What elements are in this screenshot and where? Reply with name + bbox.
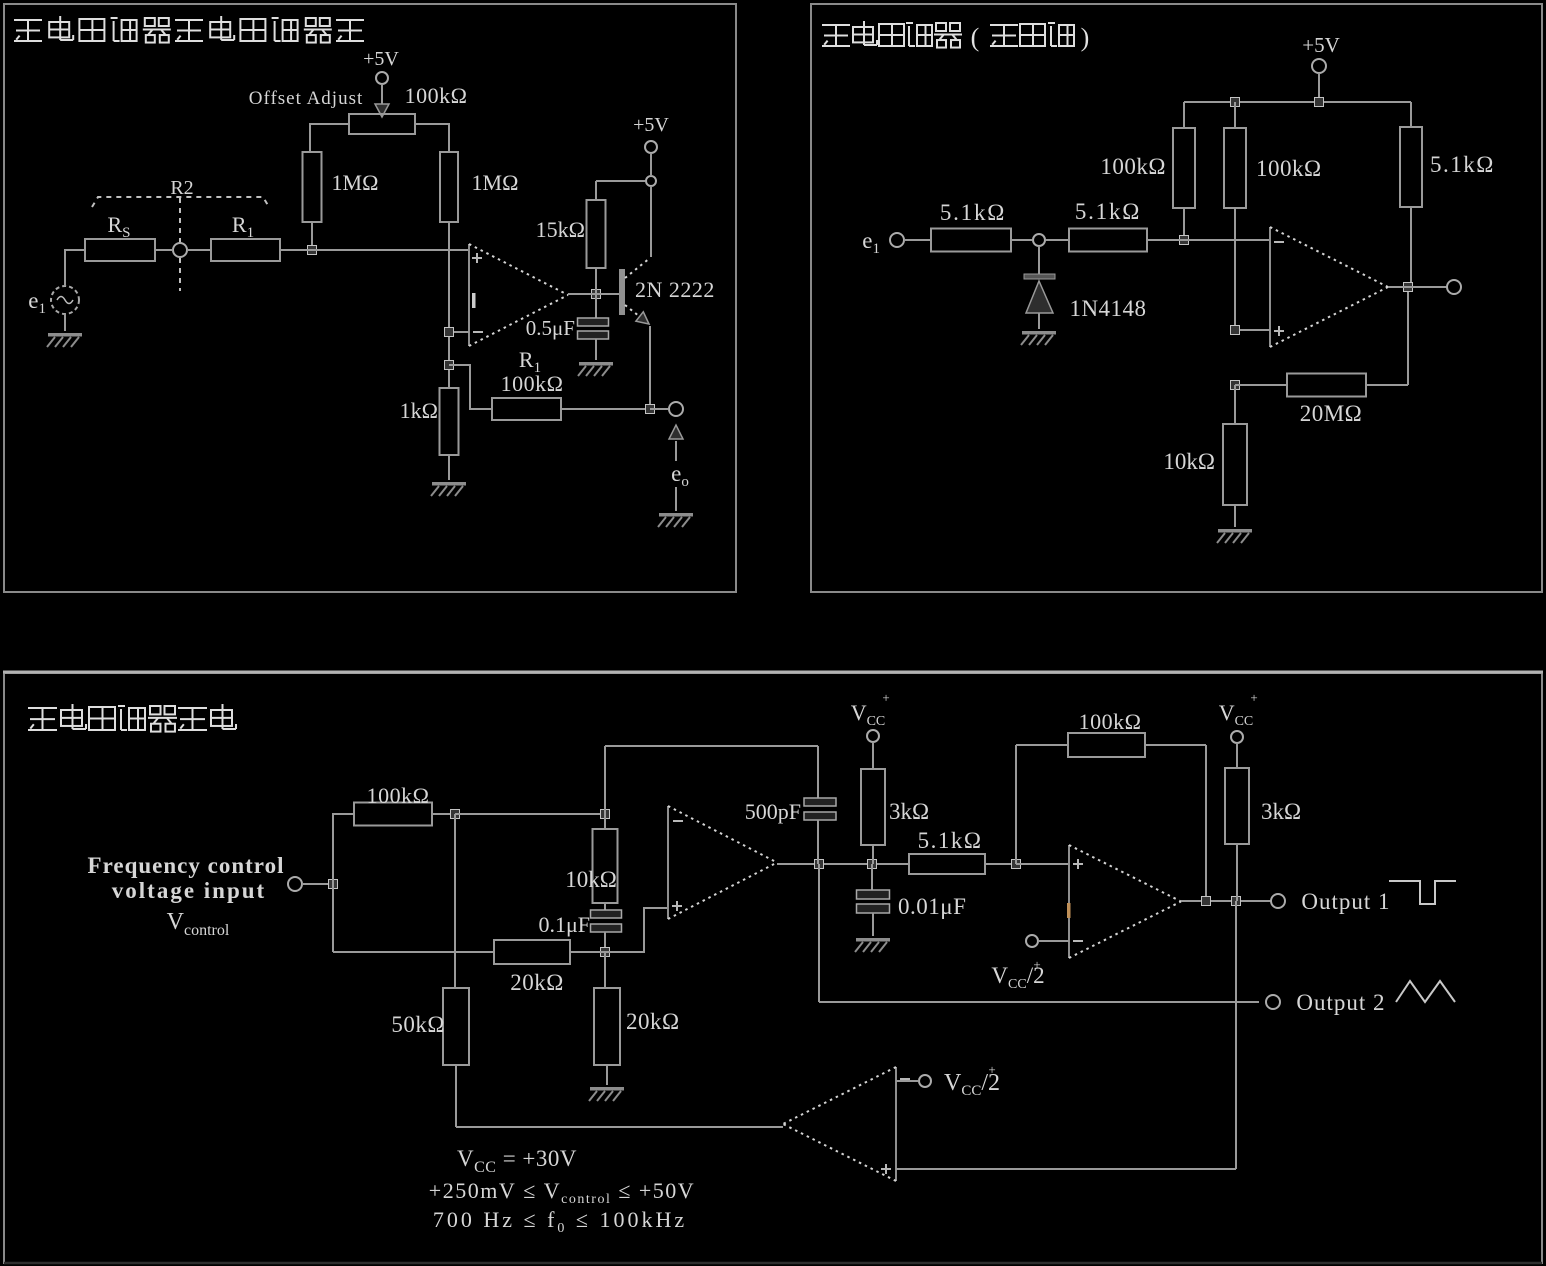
wire [1046, 239, 1069, 241]
resistor 1M&#937; (left) [303, 152, 322, 222]
resistor 10k&#937; [593, 829, 618, 903]
svg-text:100kΩ: 100kΩ [501, 371, 564, 396]
potentiometer 100k&#937; [349, 83, 467, 134]
wire [1011, 239, 1032, 241]
wire + input rail [896, 1168, 1236, 1170]
wire [650, 408, 668, 410]
wire [675, 487, 677, 511]
svg-text:Output 2: Output 2 [1296, 990, 1385, 1015]
op-amp U1 [469, 244, 568, 346]
junction [1232, 897, 1241, 906]
resistor R1 100k&#937; (feedback) [492, 398, 561, 420]
terminal output [1447, 280, 1461, 294]
junction (timing node) [601, 948, 610, 957]
svg-text:+: + [988, 1062, 995, 1077]
svg-text:3kΩ: 3kΩ [1261, 799, 1301, 824]
arrow to output [669, 425, 683, 439]
svg-text:5.1kΩ: 5.1kΩ [1430, 152, 1495, 177]
wire [904, 239, 931, 241]
source e1 [28, 286, 79, 317]
wire [1016, 744, 1068, 746]
wire [1235, 384, 1287, 386]
wire [604, 903, 606, 910]
node (collector supply) [646, 176, 656, 186]
junction (feedback node) [1231, 381, 1240, 390]
terminal e_o [669, 402, 683, 416]
resistor 10k&#937; [1223, 424, 1247, 505]
wire output 2 [819, 1001, 1259, 1003]
wire [1234, 505, 1236, 527]
wire input branch [332, 813, 334, 952]
junction (input) [329, 880, 338, 889]
ground (diode) [1021, 331, 1056, 345]
node between RS and R1 [173, 243, 187, 257]
ground (0.01uF) [855, 938, 890, 952]
wire to + input [605, 908, 668, 952]
junction (noninverting input node) [308, 246, 317, 255]
terminal Output 1 [1271, 894, 1285, 908]
junction (inverting node) [445, 328, 454, 337]
wire [1366, 384, 1408, 386]
svg-text:20kΩ: 20kΩ [626, 1009, 680, 1034]
svg-text:+: + [1033, 957, 1040, 972]
wire [570, 951, 605, 953]
svg-text:2N 2222: 2N 2222 [635, 277, 715, 302]
resistor 100k&#937; (mid) [1224, 128, 1246, 208]
title: (single supply) parens+chars [971, 23, 980, 52]
wire op-amp output to base [568, 293, 619, 295]
wire [302, 883, 333, 885]
wire output [777, 863, 909, 865]
wire [1235, 901, 1237, 1169]
wire [1183, 102, 1185, 128]
wire [1234, 208, 1236, 330]
node (diode tap) [1033, 234, 1045, 246]
resistor 50k&#937; [443, 988, 469, 1065]
resistor 5.1k&#937; (input 1) [931, 229, 1011, 252]
svg-text:+: + [882, 690, 889, 705]
svg-text:5.1kΩ: 5.1kΩ [940, 200, 1006, 225]
wire to + input [1235, 329, 1270, 331]
svg-text:100kΩ: 100kΩ [405, 83, 468, 108]
junction (integrator summing node) [601, 810, 610, 819]
wire [985, 863, 1016, 865]
resistor 3k&#937; (left) [861, 769, 885, 845]
wire [606, 1065, 608, 1085]
svg-text:3kΩ: 3kΩ [889, 799, 929, 824]
wire [1318, 73, 1320, 102]
wire [309, 123, 311, 152]
junction [1315, 98, 1324, 107]
wire [604, 746, 606, 814]
wire to + input [1016, 863, 1069, 865]
wire [311, 222, 313, 250]
wire [1236, 844, 1238, 901]
dashed bracket R2 [92, 177, 269, 291]
svg-text:Offset Adjust: Offset Adjust [249, 88, 364, 109]
wire [333, 813, 354, 815]
svg-text:+5V: +5V [363, 48, 399, 70]
ground (10k) [1217, 529, 1252, 543]
wire [604, 814, 606, 829]
svg-text:500pF: 500pF [745, 799, 801, 824]
power +5V terminal [1302, 33, 1340, 73]
svg-text:Frequency control: Frequency control [88, 853, 285, 878]
svg-text:1MΩ: 1MΩ [332, 170, 379, 195]
wire [872, 913, 874, 936]
svg-text:100kΩ: 100kΩ [367, 783, 430, 808]
wire feedback up [1407, 288, 1409, 385]
wire [1205, 745, 1207, 901]
wire [650, 153, 652, 176]
junction [1231, 98, 1240, 107]
ground (e1) [47, 333, 82, 347]
resistor 1M&#937; (right) [440, 152, 458, 222]
wire [1410, 207, 1412, 287]
wire comparator output rail [456, 1126, 783, 1128]
resistor 20M&#937; [1287, 374, 1366, 397]
wire pot right lead [415, 123, 449, 125]
wire [872, 845, 874, 864]
power VCC terminal (A2) [1219, 690, 1258, 743]
wire [448, 455, 450, 480]
svg-text:0.5μF: 0.5μF [526, 316, 575, 340]
wire output 1 [1181, 900, 1271, 902]
svg-text:100kΩ: 100kΩ [1256, 156, 1322, 181]
diode D1 1N4148 [1024, 246, 1055, 329]
svg-text:R2: R2 [170, 177, 193, 199]
resistor 100k&#937; (left) [1173, 128, 1195, 208]
svg-text:1N4148: 1N4148 [1069, 296, 1146, 321]
junction (comparator + node) [1012, 860, 1021, 869]
svg-text:): ) [1081, 23, 1090, 52]
svg-text:+5V: +5V [633, 114, 669, 136]
svg-text:5.1kΩ: 5.1kΩ [1075, 199, 1141, 224]
resistor 3k&#937; (right) [1225, 768, 1249, 844]
svg-text:15kΩ: 15kΩ [536, 217, 585, 242]
junction (integrator output) [815, 860, 824, 869]
wire [1183, 208, 1185, 239]
svg-text:20kΩ: 20kΩ [510, 970, 564, 995]
wire [64, 249, 85, 251]
ground (1k) [431, 482, 466, 496]
resistor 20k&#937; (lower) [594, 988, 620, 1065]
transistor Q1 2N2222 [619, 258, 715, 324]
op-amp U2 [1270, 227, 1388, 347]
wire [604, 952, 606, 988]
power +5V terminal (offset adjust) [363, 48, 399, 117]
resistor 100k&#937; (input) [354, 803, 432, 826]
wire [817, 746, 819, 798]
capacitor 500pF [804, 798, 836, 820]
wire [595, 181, 597, 200]
wire [871, 864, 873, 890]
wire [595, 268, 597, 294]
svg-text:10kΩ: 10kΩ [565, 867, 617, 892]
title: adjustable-offset low-frequency amplifier (Chinese) [14, 16, 364, 43]
power +5V terminal (collector) [633, 114, 669, 153]
wire to - input [1147, 239, 1270, 241]
svg-text:voltage input: voltage input [112, 878, 266, 903]
wire [872, 742, 874, 769]
svg-text:100kΩ: 100kΩ [1079, 709, 1142, 734]
svg-text:50kΩ: 50kΩ [391, 1012, 445, 1037]
op-amp A2 (comparator) [1067, 845, 1181, 958]
resistor RS [85, 239, 155, 261]
wire [604, 932, 606, 952]
wire [818, 864, 820, 1002]
wire [455, 1065, 457, 1127]
wire to - input [455, 813, 605, 815]
resistor 5.1k&#937; (input 2) [1069, 229, 1147, 252]
wire top feedback rail [605, 745, 818, 747]
wire [1236, 743, 1238, 768]
junction (inverting node) [1180, 236, 1189, 245]
wire to collector [650, 186, 652, 257]
wire [675, 441, 677, 461]
wire [64, 250, 66, 286]
svg-text:100kΩ: 100kΩ [1100, 154, 1166, 179]
resistor 5.1k&#937; [909, 854, 985, 874]
wire output [1388, 286, 1447, 288]
resistor 1k&#937; [440, 388, 459, 455]
ground (20k) [589, 1087, 624, 1101]
resistor 5.1k&#937; (pullup) [1400, 127, 1422, 207]
svg-text:10kΩ: 10kΩ [1163, 449, 1215, 474]
label Frequency control / voltage input / Vcontrol [88, 853, 285, 939]
wire [155, 249, 173, 251]
wire feedback left [449, 365, 492, 409]
terminal Output 2 [1266, 995, 1280, 1009]
terminal VCC/2 (A2) [991, 935, 1044, 992]
svg-text:1kΩ: 1kΩ [400, 398, 438, 423]
wire to capacitor [595, 294, 597, 318]
wire to - input [449, 331, 469, 333]
junction [1231, 326, 1240, 335]
junction (output node) [1404, 283, 1413, 292]
wire to 50k [454, 814, 456, 988]
title: voltage-controlled high-frequency oscillator (Chinese) [28, 704, 236, 732]
wire [1410, 102, 1412, 127]
junction (node A) [451, 810, 460, 819]
resistor 15k&#937; [587, 200, 606, 268]
wire [187, 249, 211, 251]
triangle wave glyph [1396, 981, 1455, 1002]
wire [896, 1080, 918, 1082]
svg-text:(: ( [971, 23, 980, 52]
wire [448, 123, 450, 152]
wire [596, 180, 645, 182]
wire [1234, 385, 1236, 424]
power VCC terminal (A1) [851, 690, 890, 742]
terminal VCC/2 (A3) [919, 1062, 1000, 1099]
wire [64, 314, 66, 331]
title: zero-crossing detector (Chinese) [822, 21, 962, 48]
capacitor 0.5&#956;F [578, 318, 609, 339]
wire [595, 339, 597, 360]
junction [445, 361, 454, 370]
wire [1038, 940, 1069, 942]
terminal e1 [890, 233, 904, 247]
ground (e_o) [658, 513, 693, 527]
wire [1234, 102, 1236, 128]
junction [868, 860, 877, 869]
svg-text:1MΩ: 1MΩ [472, 170, 519, 195]
wire 1M to inverting node [448, 222, 450, 388]
capacitor 0.01&#956;F [857, 890, 890, 913]
junction (output node) [646, 405, 655, 414]
wire supply rail [1184, 101, 1411, 103]
wire [1015, 745, 1017, 864]
capacitor 0.1&#956;F [591, 910, 622, 932]
ground (0.5uF) [578, 362, 613, 376]
wire [1145, 744, 1206, 746]
square wave glyph [1389, 881, 1456, 904]
resistor R1 (input) [211, 239, 280, 261]
wire emitter [649, 326, 651, 409]
svg-text:20MΩ: 20MΩ [1300, 401, 1363, 426]
svg-text:+5V: +5V [1302, 33, 1340, 57]
junction [1202, 897, 1211, 906]
wire [817, 820, 819, 864]
terminal Vcontrol input [288, 877, 302, 891]
resistor 100k&#937; (hysteresis) [1068, 733, 1145, 757]
wire bottom rail [333, 951, 494, 953]
wire [432, 813, 455, 815]
svg-text:0.01μF: 0.01μF [898, 894, 966, 919]
wire feedback to output node [561, 408, 650, 410]
svg-text:5.1kΩ: 5.1kΩ [918, 828, 983, 853]
resistor 20k&#937; (left) [494, 940, 570, 964]
svg-text:+: + [1250, 690, 1257, 705]
wire to op-amp + input [280, 249, 469, 251]
wire pot left lead [310, 123, 349, 125]
svg-text:Output 1: Output 1 [1301, 889, 1390, 914]
op-amp A1 (integrator) [668, 806, 777, 919]
junction (base node) [592, 290, 601, 299]
svg-text:0.1μF: 0.1μF [538, 912, 590, 937]
op-amp A3 (buffer, points left) [783, 1067, 910, 1181]
